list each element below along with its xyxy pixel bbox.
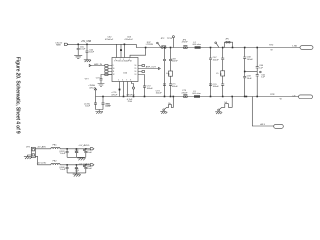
- svg-text:MINI: MINI: [56, 45, 61, 47]
- wire IC top pin risers: [117, 44, 125, 57]
- svg-text:Figure 20. Schematic, Sheet 4: Figure 20. Schematic, Sheet 4 of 9: [14, 57, 20, 134]
- junction pair B right top: [222, 47, 224, 49]
- wire IC bottom pins: [120, 82, 128, 97]
- pin numbers bottom: [118, 80, 131, 82]
- inductor L5 pair B: [216, 71, 225, 76]
- capacitor C71 pair A bottom: [163, 84, 178, 88]
- svg-text:4: 4: [129, 59, 130, 61]
- svg-text:FB2: FB2: [53, 161, 58, 163]
- svg-text:JP5: JP5: [225, 39, 229, 41]
- svg-text:R7R: R7R: [270, 94, 275, 96]
- svg-text:12: 12: [113, 74, 115, 76]
- jumper C79 inline on 3.3V wire: [182, 39, 189, 48]
- svg-text:7: 7: [126, 80, 127, 82]
- junction rail at A3.3 drop: [246, 96, 248, 98]
- ground bottom branch: [73, 174, 81, 176]
- svg-text:15: 15: [135, 68, 137, 70]
- test point hook TP11: [215, 42, 219, 48]
- svg-text:TP10: TP10: [167, 38, 173, 40]
- svg-text:10uF: 10uF: [89, 52, 95, 54]
- wire top branch: [35, 148, 90, 150]
- capacitor C69 pair A top: [163, 58, 178, 62]
- svg-text:+5V_DVD: +5V_DVD: [37, 163, 47, 165]
- node ARF_OUT: [138, 66, 160, 70]
- junction top branch c1: [66, 148, 68, 150]
- junction bottom branch c2: [76, 164, 78, 166]
- svg-text:JP3: JP3: [26, 147, 30, 149]
- jumper JP4 loop above wire: [225, 39, 234, 49]
- junction at C65: [86, 44, 88, 46]
- junction at C55: [77, 44, 79, 46]
- pin numbers right: [135, 65, 137, 76]
- svg-text:100nF: 100nF: [213, 86, 220, 88]
- capacitor C62 label: [105, 37, 114, 41]
- svg-text:10uF: 10uF: [247, 78, 253, 80]
- svg-text:100nF: 100nF: [147, 88, 154, 90]
- node +3V3A stub: [88, 84, 96, 96]
- resistor R76 label: [106, 103, 111, 107]
- jumper to ground W2 below rail: [215, 96, 233, 114]
- wire drop to A3.3 connector: [252, 97, 273, 127]
- node +5V_USB label: [81, 41, 91, 43]
- capacitor C81: [59, 149, 68, 158]
- junction pair A right rail: [170, 96, 172, 98]
- capacitor C84: [59, 165, 68, 173]
- svg-text:1.8A: 1.8A: [292, 44, 297, 47]
- node net label on 3.3V wire: [269, 45, 274, 52]
- svg-text:14: 14: [135, 71, 137, 73]
- capacitor C61 polarized: [256, 71, 266, 78]
- svg-text:P0G: P0G: [128, 101, 133, 103]
- svg-text:16: 16: [135, 65, 137, 67]
- svg-text:6: 6: [122, 80, 123, 82]
- capacitor C76 label: [111, 92, 118, 96]
- svg-text:1: 1: [115, 59, 116, 61]
- ground below C55: [74, 55, 82, 58]
- svg-text:1uF: 1uF: [261, 77, 265, 79]
- svg-text:13: 13: [135, 74, 137, 76]
- resistor R75 label below rail: [127, 99, 133, 103]
- wire bottom branch: [35, 156, 90, 165]
- wire branch C line 1: [244, 48, 246, 97]
- inductor FB1: [51, 145, 60, 149]
- junction pair B left top: [210, 47, 212, 49]
- capacitor C60: [256, 65, 264, 69]
- svg-text:ARF_OUT: ARF_OUT: [146, 66, 157, 69]
- svg-text:.1uF: .1uF: [75, 171, 80, 173]
- junction C line1 top: [244, 47, 246, 49]
- ground below C74 C66: [95, 110, 103, 114]
- ground at IC left: [98, 84, 105, 87]
- ground top branch: [77, 158, 85, 160]
- svg-text:10uF: 10uF: [60, 153, 66, 155]
- junction on rail at C66: [102, 96, 104, 98]
- svg-text:470nFx2: 470nFx2: [105, 39, 114, 41]
- svg-text:10uF: 10uF: [87, 168, 93, 170]
- junction top branch c2: [76, 148, 78, 150]
- capacitor C74: [84, 97, 97, 110]
- ground below C65: [84, 60, 91, 62]
- svg-text:100uF: 100uF: [213, 59, 220, 61]
- svg-text:8: 8: [130, 80, 131, 82]
- wire left pin stubs: [105, 68, 112, 76]
- capacitor C68 pair B bottom: [209, 84, 224, 88]
- svg-text:100nF: 100nF: [247, 59, 254, 61]
- capacitor C83: [83, 149, 92, 158]
- svg-text:9: 9: [113, 65, 114, 67]
- transistor test point loop on pin 8: [132, 82, 135, 97]
- svg-text:L5: L5: [216, 73, 219, 75]
- svg-text:+5V_AVDD: +5V_AVDD: [78, 144, 89, 147]
- svg-text:.1uF: .1uF: [75, 152, 80, 154]
- wire bottom rail: [96, 96, 299, 98]
- capacitor C78 label above rail: [126, 95, 135, 97]
- node +5V_AVD label: [37, 146, 47, 149]
- connector JP3: [31, 147, 35, 157]
- capacitor C85: [75, 165, 80, 173]
- node K37 net label: [146, 42, 154, 46]
- svg-text:100uF: 100uF: [156, 93, 163, 95]
- junction top branch c3: [85, 148, 87, 150]
- inductor L4 pair A: [166, 71, 173, 76]
- capacitor C73 label above rail: [156, 90, 163, 94]
- svg-text:600 ohm: 600 ohm: [192, 93, 201, 95]
- test point TP10: [167, 36, 175, 48]
- svg-text:+5V_DVDD: +5V_DVDD: [78, 164, 90, 166]
- svg-text:2: 2: [120, 59, 121, 61]
- junction on pin 5 drop: [119, 89, 121, 91]
- junction bottom branch c3: [85, 164, 87, 166]
- svg-text:10uF: 10uF: [87, 152, 93, 154]
- wire branch C line 2: [256, 48, 258, 97]
- svg-text:10uF: 10uF: [60, 169, 66, 171]
- capacitor C66: [102, 97, 112, 110]
- junction pair A right top: [170, 47, 172, 49]
- capacitor C63 label: [124, 37, 133, 41]
- wire step down to 3.3V rail: [136, 44, 300, 47]
- junction C line2 top: [256, 47, 258, 49]
- wire cross link C1 to C2: [244, 71, 257, 73]
- svg-text:600: 600: [169, 73, 171, 76]
- wire branch pair B: [211, 48, 223, 97]
- junction on top wire: [124, 44, 126, 46]
- capacitor C59: [243, 76, 252, 80]
- op-amp U10 TPS65130PW body: [112, 58, 138, 82]
- svg-text:JP2: JP2: [161, 38, 165, 40]
- svg-text:10uF: 10uF: [85, 106, 91, 108]
- svg-text:100uF: 100uF: [172, 86, 179, 88]
- svg-text:5: 5: [118, 80, 119, 82]
- capacitor C82: [75, 149, 80, 158]
- capacitor C72 on right pin drop: [138, 75, 153, 97]
- svg-text:W: W: [271, 50, 274, 52]
- jumper JP5 on 3.3V rail: [157, 38, 167, 48]
- junction pair A left top: [164, 47, 166, 49]
- wire ground bus bottom branch: [67, 173, 86, 174]
- jumper to ground W1 below rail: [160, 96, 174, 114]
- svg-text:470nF: 470nF: [182, 42, 189, 44]
- node JP3 label: [26, 147, 30, 149]
- connector off-page top oval: [300, 46, 313, 50]
- capacitor C67 pair B top: [209, 57, 224, 61]
- node 1.8 label rail: [292, 95, 296, 97]
- junction rail pin6: [123, 96, 125, 98]
- svg-text:VTT: VTT: [85, 79, 90, 81]
- node +5VD arrow: [78, 164, 94, 166]
- inductor L2 inline on 3.3V wire: [193, 42, 202, 49]
- junction on riser: [120, 49, 122, 51]
- svg-text:R70: R70: [269, 45, 274, 47]
- inductor L3 inline on bottom rail: [192, 91, 201, 98]
- capacitor C55: [77, 44, 86, 55]
- svg-text:W: W: [280, 98, 283, 100]
- node +5V_DVD label: [37, 163, 47, 165]
- svg-text:100nF: 100nF: [172, 61, 179, 63]
- pin numbers top: [115, 59, 130, 61]
- svg-text:470uF: 470uF: [111, 94, 118, 96]
- node A3.3 label: [260, 123, 265, 126]
- svg-text:1uF: 1uF: [259, 67, 263, 69]
- capacitor C86: [83, 165, 92, 173]
- connector off-page rail oval: [299, 95, 313, 99]
- junction pair B right rail: [222, 96, 224, 98]
- svg-text:1.0uF: 1.0uF: [80, 49, 86, 51]
- wire +5V input rail: [67, 43, 136, 45]
- junction pair B left rail: [210, 96, 212, 98]
- junction rail C72: [144, 96, 146, 98]
- wire right pin stubs: [138, 65, 145, 73]
- caption Figure 20: [14, 57, 20, 134]
- junction bottom branch c1: [66, 164, 68, 166]
- pin numbers left: [113, 65, 115, 76]
- svg-text:L7R5W: L7R5W: [146, 44, 154, 46]
- jumper C79 inline on bottom rail: [181, 90, 188, 97]
- junction C line1 rail: [244, 96, 246, 98]
- svg-text:+5V_USB: +5V_USB: [81, 41, 91, 43]
- svg-text:10: 10: [113, 68, 115, 70]
- junction pair A left rail: [164, 96, 166, 98]
- wire branch pair A: [165, 48, 171, 97]
- svg-text:3: 3: [123, 59, 124, 61]
- svg-text:11: 11: [113, 71, 115, 73]
- inductor FB2: [51, 161, 60, 165]
- svg-text:600 ohm: 600 ohm: [193, 44, 202, 46]
- connector off-page A3.3 oval: [274, 124, 284, 128]
- svg-text:U10: U10: [123, 73, 128, 75]
- capacitor C58: [243, 57, 253, 61]
- capacitor C65: [86, 44, 95, 60]
- svg-text:470nFx2: 470nFx2: [124, 39, 133, 41]
- node CN 5V input flag: [55, 42, 68, 46]
- svg-text:100nF: 100nF: [105, 106, 112, 108]
- node 1.8A label top: [292, 44, 297, 47]
- ground at JP3: [24, 155, 32, 159]
- svg-text:+5V_AVD: +5V_AVD: [37, 146, 47, 149]
- junction C line2 rail: [256, 96, 258, 98]
- svg-text:FB1: FB1: [53, 145, 58, 147]
- node net label on rail: [270, 94, 282, 100]
- junction rail pin8: [133, 96, 135, 98]
- node ARF_IN: [89, 63, 112, 66]
- svg-text:600: 600: [221, 73, 223, 76]
- wire ground bus top branch: [67, 156, 86, 159]
- capacitor C77 to ground at IC left: [96, 75, 112, 84]
- wire feedback loop to pin: [130, 47, 146, 58]
- node VTT label: [85, 79, 90, 81]
- node +5VA arrow: [78, 144, 94, 150]
